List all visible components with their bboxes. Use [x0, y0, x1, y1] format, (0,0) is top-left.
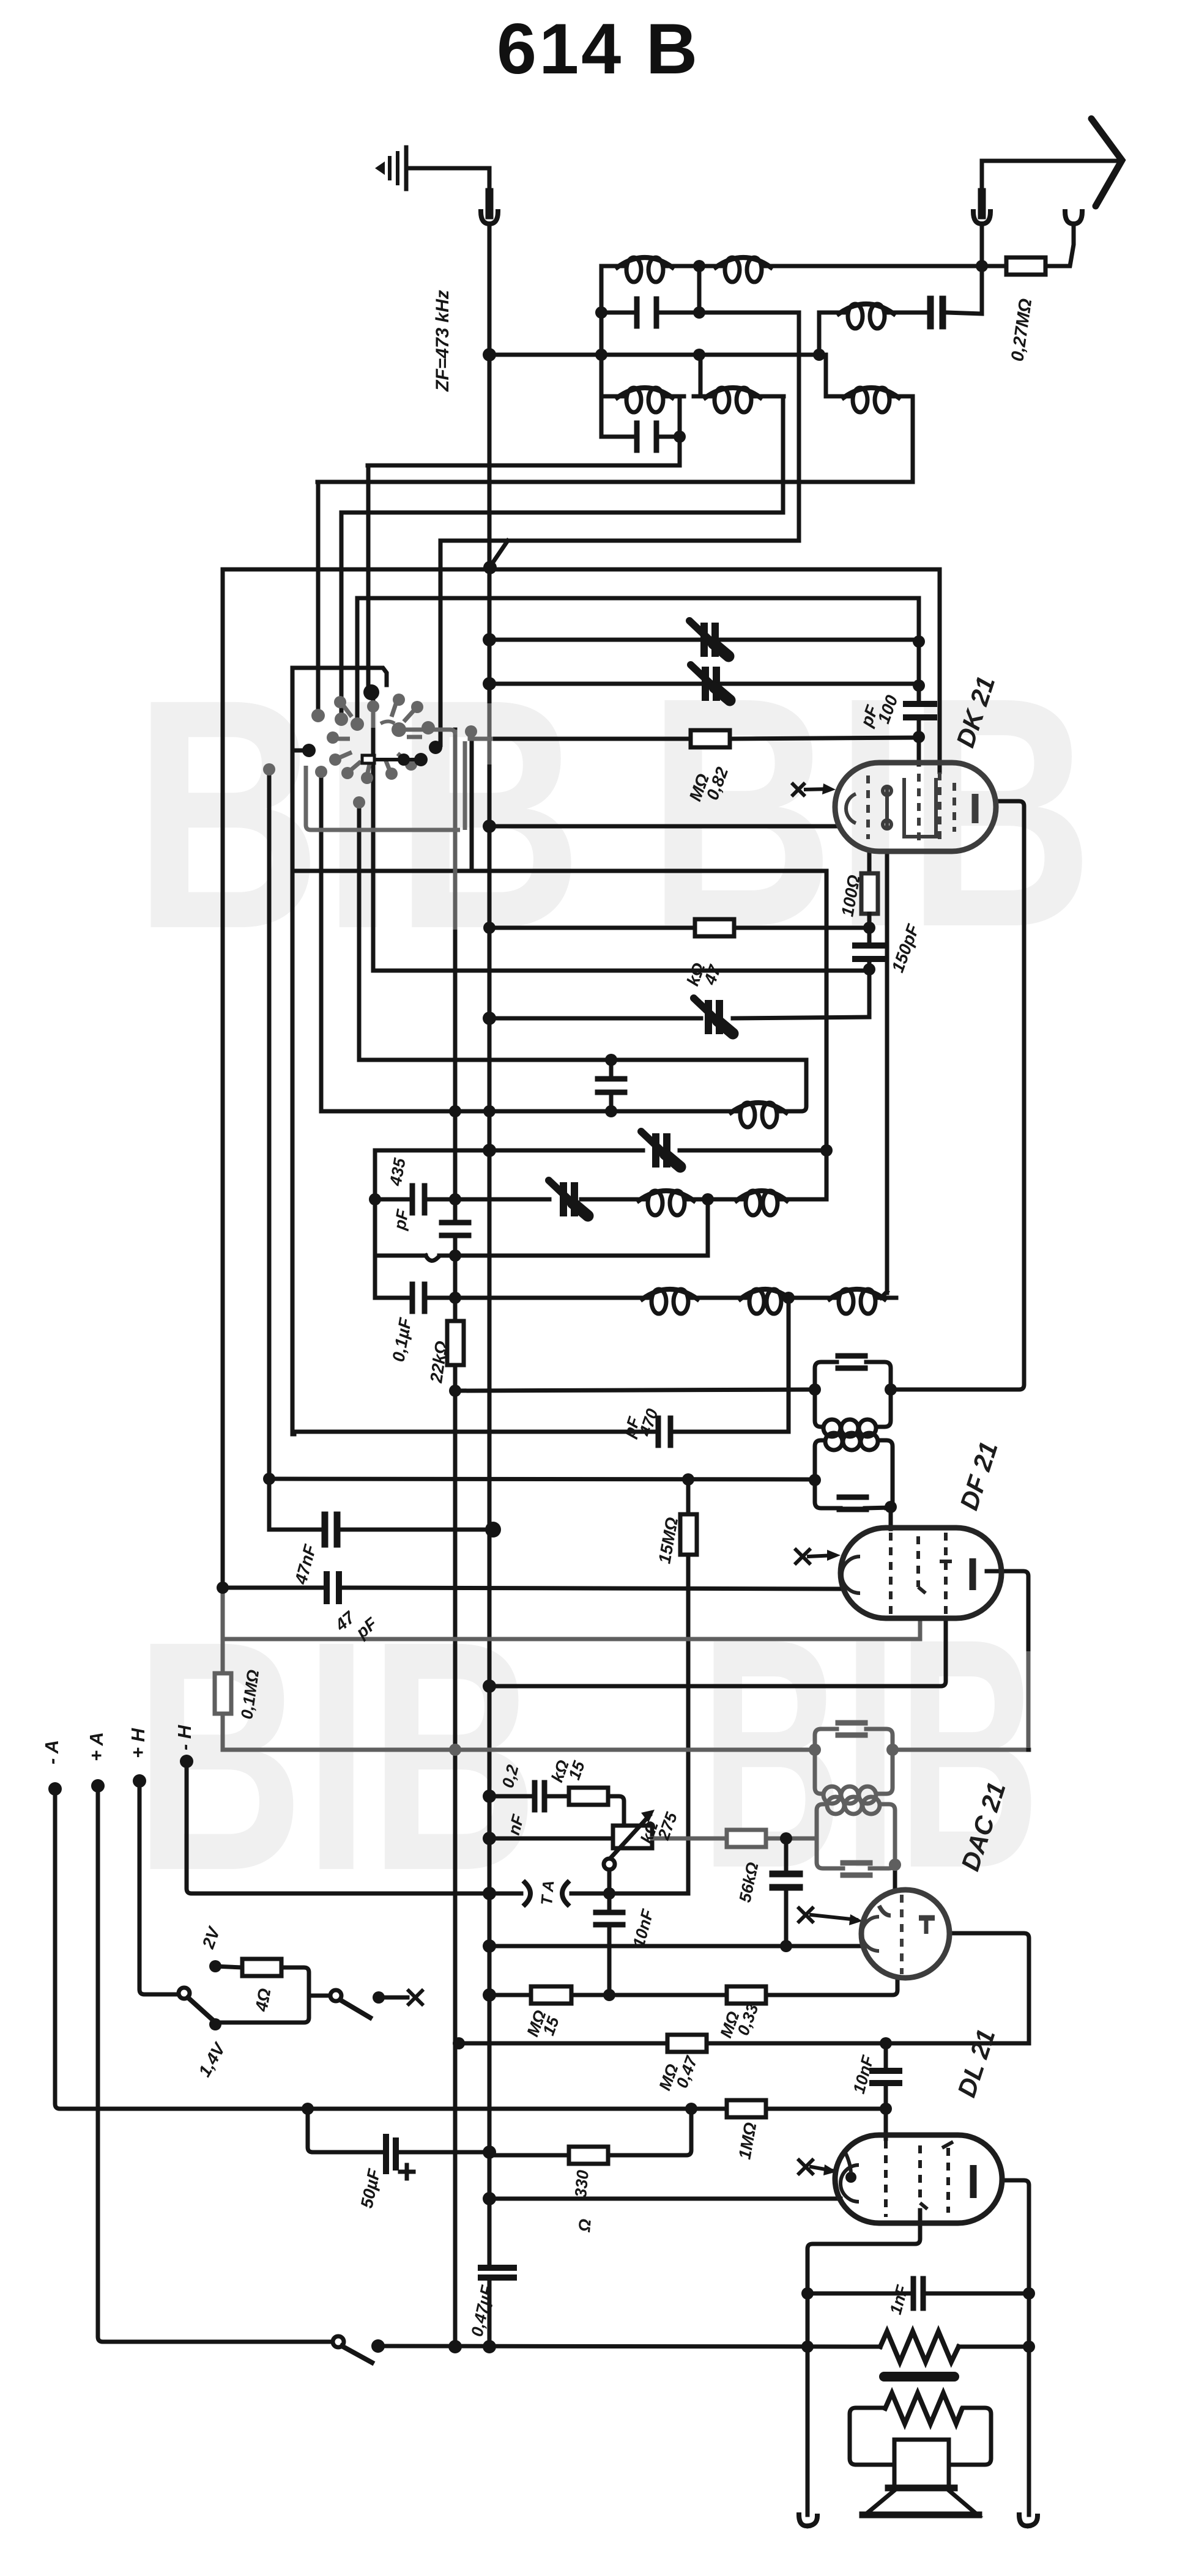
row y=1118 bus to DK21 grid [489, 682, 919, 686]
bus row y=580 [489, 353, 826, 357]
drop x=587 from switch [357, 801, 362, 1060]
band switch black contacts [302, 684, 442, 766]
trimmer arrow [689, 621, 729, 656]
capacitor IF3 plates [838, 1723, 865, 1735]
junction (1448,3341) [880, 2037, 892, 2049]
switch wiper rect [362, 755, 374, 763]
wire IF4 to DAC21 grid [893, 1865, 897, 1891]
coil L6a [652, 1289, 666, 1314]
junction (750,3341) [453, 2037, 465, 2049]
socket cup (aerial 1) [973, 212, 990, 224]
resistor R 1MOhm [727, 2100, 766, 2117]
coil L2 (osc) [848, 304, 863, 328]
junction (503,3448) [302, 2103, 314, 2115]
gray overlay on DF21 anode drop [1027, 1651, 1031, 1748]
junction (1285,3006) [780, 1832, 792, 1845]
battery terminal +H [133, 1774, 146, 1788]
switch contact (558,1176) [335, 712, 348, 726]
junction (744,3837) [448, 2340, 462, 2353]
osc loop right x=1318 [788, 1060, 806, 1111]
wire switch contact to x=478 [292, 749, 306, 753]
long row y=887 [440, 539, 799, 543]
capacitor C 0,47uF plates on bus [481, 2265, 514, 2271]
junction (800,1046) [483, 633, 496, 646]
TA jack hooks [525, 1882, 530, 1904]
switch contact (556,1148) [334, 696, 346, 708]
x mark DF21 filament [796, 1550, 809, 1563]
battery wire -H [187, 1761, 493, 1893]
trimmer C on y=1961 plates [563, 1186, 574, 1213]
coil L4 (osc padding) [740, 1103, 755, 1127]
speaker cone base [863, 2512, 979, 2519]
DF21 internals [842, 1533, 973, 1615]
cap between 56k and 3182 [784, 1838, 789, 1946]
wire x=610 big dot to row 1587 [371, 696, 376, 971]
IF2 box top edge with coil [815, 1440, 893, 1508]
switch contact (640,1265) [385, 768, 398, 780]
coil IF4 (3 loops) [827, 1797, 880, 1814]
second bus x=744 [453, 730, 458, 2347]
junction (800,1517) [483, 922, 496, 934]
row y=2272 left tap to rail [455, 1390, 815, 1391]
ground symbol [375, 147, 406, 189]
IF1 box top edge with cap [815, 1362, 891, 1390]
junction (1143,511) [693, 306, 705, 319]
gray overlay on bus in watermark band [488, 703, 492, 764]
junction (999,1817) [605, 1105, 617, 1117]
battery terminal -H [180, 1755, 193, 1768]
aerial line y=435 [601, 264, 1006, 268]
switch contact (440,1258) [263, 763, 275, 775]
junction (800,1665) [483, 1012, 496, 1025]
vertical x=364 gray section with 0,1M resistor [221, 1588, 225, 1750]
row y=1663 trimmer line [489, 1017, 869, 1018]
trimmer C on y=1880 plates [656, 1137, 667, 1164]
svg-text:- H: - H [174, 1725, 195, 1750]
wire x=1143 between 435 and 511 [697, 266, 702, 313]
osc row y=511 [819, 266, 982, 314]
capacitor plates x=1285 [773, 1871, 800, 1878]
wire 100Ohm bottom to 150pF [867, 914, 872, 944]
DL21 tube envelope [835, 2135, 1002, 2223]
junction (744,2861) [449, 1744, 461, 1756]
plug pin (antenna) [978, 192, 986, 215]
DF21 anode drop x=1681 [987, 1571, 1028, 1750]
DK21 tube envelope [835, 763, 996, 851]
junction (800,1351) [483, 820, 496, 833]
speaker magnet square [894, 2440, 949, 2488]
junction (1459,2861) [886, 1744, 899, 1756]
switch contact (652,1144) [393, 694, 405, 706]
left block vertical x=613 [373, 1150, 377, 1298]
switch contact (587,1312) [353, 796, 365, 809]
junction (800,580) [483, 348, 496, 361]
gray arc detail [381, 722, 395, 724]
coil L5a [648, 1191, 663, 1215]
wire x=1157 down [706, 1199, 710, 1256]
DL21 internals [841, 2141, 973, 2217]
DK21 filament drop x=1450 [885, 851, 889, 1293]
junction (1448,3448) [880, 2103, 892, 2115]
resistor R 0,82MOhm [691, 730, 730, 747]
svg-text:614 B: 614 B [497, 9, 700, 89]
junction (1157,1961) [702, 1193, 714, 1205]
switch contact (584,1184) [351, 717, 364, 731]
resistor R 47kOhm [695, 919, 734, 936]
junction (1463,3049) [889, 1859, 901, 1871]
row y=3595 bus to DL21 [493, 2197, 841, 2201]
filament switch pivot [179, 1988, 190, 1999]
switch gray U-loop below [306, 741, 465, 830]
contact dot 2V [209, 1960, 221, 1972]
row y=1733 [359, 1058, 806, 1062]
row y=2861 gray AVC line [223, 1748, 1029, 1752]
row y=1351 bus to DK21 cathode [489, 824, 836, 829]
long row y=978 [357, 596, 919, 601]
wire 50uF takeoff [308, 2109, 493, 2152]
band bus x=478 [291, 668, 295, 1434]
switch gray stub ring [371, 709, 376, 728]
capacitor C plates in x=744 rail [442, 1220, 469, 1226]
wire x=1289 coil row to 470pF row [787, 1298, 791, 1432]
svg-text:ZF=473 kHz: ZF=473 kHz [433, 290, 453, 392]
junction (1332,2861) [809, 1744, 821, 1756]
x mark chassis [409, 1991, 422, 2004]
IF4 box bottom edge with cap [817, 1838, 895, 1868]
switch drop x=584 [355, 598, 360, 722]
coil L5b [746, 1191, 760, 1215]
main chassis bus vertical lower [488, 2279, 492, 2347]
switch contact (672,1250) [405, 758, 417, 771]
junction (744,1961) [449, 1193, 461, 1205]
capacitor C3 plates row y=714 [637, 423, 656, 450]
switch contact (770,1196) [465, 725, 477, 738]
switch contact (682,1156) [411, 701, 423, 713]
resistor R 56kOhm [727, 1830, 766, 1847]
row y=1046 bus to DK21 grid [489, 638, 919, 642]
resistor R 15MOhm (DAC grid) [531, 1986, 571, 2004]
socket cup (chassis) [481, 212, 498, 224]
switch contact (607,1132) [363, 684, 379, 700]
junction (1339,580) [813, 349, 825, 361]
switch contact (688,1242) [414, 753, 428, 766]
junction (800,3519) [483, 2145, 496, 2159]
band switch assembly [306, 702, 493, 830]
wire socket to junction [980, 224, 984, 266]
battery wire +A [98, 1786, 333, 2342]
capacitor 0,1uF plates [412, 1284, 425, 1311]
band switch contact dots gray [263, 694, 477, 809]
switch contact (520,1170) [311, 709, 325, 722]
junction (1682,3750) [1023, 2287, 1035, 2300]
svg-text:BIB: BIB [135, 1574, 538, 1939]
wire aerial2 down to resistor [1046, 224, 1074, 266]
resistor R 15MOhm vertical [680, 1514, 697, 1555]
row y=1424 [292, 869, 826, 873]
trimmer arrow [549, 1180, 588, 1216]
row y=2680 gray filament line [223, 1619, 920, 1639]
junction (1332,2420) [809, 1474, 821, 1486]
junction (744,2122) [449, 1292, 461, 1304]
junction (744,1817) [449, 1105, 461, 1117]
osc coil feed x=1339 [817, 313, 822, 355]
resistor R 15kOhm [569, 1788, 608, 1805]
feed x=1145 [699, 355, 703, 396]
band coil row y=648 [601, 394, 913, 399]
svg-text:330: 330 [571, 2169, 592, 2199]
speaker square base bar [888, 2485, 954, 2492]
contact dot on/off [373, 1991, 385, 2004]
wiper link wire [374, 758, 421, 761]
svg-text:4Ω: 4Ω [251, 1987, 274, 2013]
DL21 screen line to output [808, 2210, 920, 2515]
junction (613,1961) [369, 1193, 381, 1205]
capacitor C1 plates (aerial trim) [637, 299, 656, 326]
junction (1421,1585) [863, 963, 875, 975]
row y=2596 47pF line [223, 1588, 842, 1589]
row y=1517 bus to 100 Ohm (47k row) [489, 926, 869, 930]
DK21 internals [846, 772, 975, 841]
wire ground to bus [406, 168, 489, 191]
svg-text:- A: - A [41, 1740, 62, 1764]
wire x=771 up to 0,82M row [470, 739, 474, 871]
junction (1320,3837) [801, 2341, 814, 2353]
wire 100Ohm top lead [867, 851, 872, 873]
trimmer arrow [641, 1131, 680, 1167]
capacitor C osc padder plates [930, 299, 943, 326]
row y=1961 435pF line [375, 1197, 826, 1202]
switch drop x=720 [439, 542, 443, 745]
row y=3182 bus to DAC21 [493, 1944, 864, 1949]
capacitor 100pF plates [906, 701, 934, 707]
grid row y=2418 [269, 1479, 815, 1479]
DF21 tube envelope [841, 1528, 1001, 1618]
junction (1130,3448) [685, 2103, 697, 2115]
junction (800,3595) [483, 2192, 496, 2205]
zigzag OT secondary [885, 2393, 962, 2424]
switch contact (544,1206) [327, 731, 339, 744]
junction (806,2501) [485, 1522, 501, 1538]
wire cap row y=511 [601, 311, 799, 315]
junction (800,3837) [483, 2340, 496, 2353]
drop x=525 from switch [319, 771, 324, 1111]
potentiometer body 275k [613, 1826, 652, 1848]
junction (999,1733) [605, 1054, 617, 1066]
wire x=1492 down [911, 396, 915, 482]
transformer core bar [884, 2372, 954, 2382]
switch contact (548,1242) [329, 753, 341, 766]
coil L6b [749, 1289, 764, 1314]
row y=3006 bus to pot [493, 1837, 613, 1841]
wire 4Ohm loop [215, 1967, 309, 2024]
DL21 anode drop [1002, 2180, 1029, 2515]
coil L1a [626, 257, 641, 282]
coil IF2 (3 loops) [825, 1433, 842, 1450]
on/off lever [340, 2000, 370, 2018]
arrow to DAC21 [811, 1915, 856, 1920]
capacitor 47nF plates [325, 1515, 337, 1544]
gray 56k line [652, 1837, 817, 1841]
row y=1817 [321, 1109, 729, 1114]
junction (1605,435) [976, 260, 988, 272]
long row y=931 [223, 568, 940, 572]
switch drop x=440 [267, 768, 272, 1530]
junction (800,3262) [483, 1988, 496, 2002]
arrow to DL21 [811, 2167, 832, 2171]
left loop vertical x=367 [221, 569, 225, 1588]
junction (1502,1121) [913, 679, 925, 692]
potentiometer slider circle [604, 1859, 615, 1870]
junction (800,3006) [483, 1832, 496, 1845]
junction (983,511) [595, 306, 607, 319]
switch contact (700,1190) [421, 721, 435, 735]
junction (800,1118) [483, 677, 496, 690]
coil L3a [626, 388, 641, 412]
DK21 grid wire x=1502 [917, 598, 921, 764]
junction (618,3836) [371, 2339, 385, 2353]
wire row y=761 [368, 464, 680, 468]
trimmer arrow [694, 998, 733, 1034]
IF2 box bottom edge with cap [815, 1481, 891, 1508]
junction (1285,3182) [780, 1940, 792, 1952]
trimmer arrow [691, 665, 730, 700]
wire contact to x mark [379, 1996, 407, 2000]
on/off switch pivot [330, 1990, 341, 2001]
switch contact (652,1193) [392, 722, 406, 737]
resistor R 330Ohm [569, 2147, 608, 2164]
IF1 box bottom edge with coil [815, 1390, 891, 1427]
feed x=1350 [824, 355, 828, 396]
junction (800,3096) [483, 1887, 496, 1900]
junction (1143,580) [693, 349, 705, 361]
DK21 third grid wire x=1536 [938, 569, 942, 772]
trimmer C on y=1663 plates [708, 1004, 719, 1031]
row y=3341 DAC anode load [459, 2041, 1029, 2046]
battery terminal +A [91, 1779, 105, 1793]
vertical x=1351 osc anode [825, 871, 829, 1199]
row y=2122 filament line [375, 1292, 887, 1298]
switch contact (660,1242) [398, 753, 410, 766]
svg-text:Ω: Ω [575, 2218, 595, 2234]
junction (1125,2419) [682, 1473, 694, 1486]
junction (800,1817) [483, 1105, 496, 1117]
row y=3262 grid resistors [493, 1978, 897, 1995]
junction (996,3096) [603, 1887, 615, 1900]
wire cap leads x=999 [609, 1060, 614, 1111]
battery wire -A [55, 1789, 886, 2109]
contact dot 1,4V [209, 2018, 221, 2030]
junction (800,3182) [483, 1939, 496, 1953]
switch contact (610,1155) [367, 700, 379, 712]
coupling cap 10nF leads x=1448 [884, 2043, 888, 2139]
svg-text:+ A: + A [86, 1732, 107, 1761]
mains switch lever [342, 2346, 372, 2363]
arrow to DF21 [809, 1555, 834, 1556]
terminal hook left [799, 2515, 809, 2526]
coil L1b [725, 257, 740, 282]
IF4 box top edge with coil [817, 1804, 895, 1865]
capacitor IF2 plates [839, 1495, 866, 1500]
capacitor 47pF plates [327, 1574, 339, 1601]
junction (983,580) [595, 349, 607, 361]
resistor R 0,47MOhm [667, 2035, 707, 2052]
wire x=1280 coil L3b to row [781, 396, 785, 513]
terminal hook right [1019, 2515, 1029, 2526]
resistor R 0,27MOhm [1006, 257, 1045, 275]
IF3 box top edge with cap (DAC21) [815, 1729, 893, 1750]
capacitor 0,2nF plates [535, 1783, 544, 1810]
junction (1332,2272) [809, 1383, 821, 1396]
row y=1587 [373, 969, 869, 973]
junction (1682,3837) [1023, 2341, 1035, 2353]
wire 15M leads x=1125 [686, 1479, 691, 1893]
junction (1111,714) [674, 431, 686, 443]
left coil rail x=983 [600, 266, 604, 437]
long row y=788 [317, 480, 913, 484]
capacitor 10nF plates [596, 1910, 623, 1915]
wire antenna to plug [982, 161, 1118, 191]
coil IF3 (3 loops) [823, 1786, 876, 1804]
capacitor C plates x=999 [598, 1076, 625, 1082]
capacitor 10nF plates (coupling) [872, 2068, 899, 2074]
DAC21 anode lead [949, 1933, 1029, 2043]
junction (364,2596) [217, 1582, 229, 1594]
battery wire +H [139, 1781, 179, 1994]
switch contact (600,1272) [361, 772, 373, 784]
switch drop x=602 [366, 465, 371, 688]
junction (800,1881) [483, 1144, 496, 1157]
DAC21 tube envelope [861, 1890, 949, 1978]
x mark DL21 filament [799, 2160, 812, 2174]
svg-text:+ H: + H [127, 1728, 149, 1758]
filament switch lever [188, 1997, 213, 2020]
coil IF1 (3 loops) [823, 1419, 841, 1437]
row y=2053 with hop [375, 1256, 708, 1260]
junction (1456,2464) [885, 1501, 897, 1513]
row y=3750 1nF [808, 2292, 1029, 2296]
capacitor 1nF plates [913, 2279, 923, 2308]
wire slider down [607, 1870, 612, 1893]
junction (1143,435) [693, 260, 705, 272]
junction (1502,1049) [913, 635, 925, 648]
row y=2757 bus to DF21 [489, 1619, 946, 1686]
capacitor 10nF leads [607, 1893, 612, 1995]
arrow to DK21 [804, 789, 831, 790]
junction (801,928) [483, 561, 497, 574]
row y=2937 bus-0,2nF-15k [493, 1796, 624, 1826]
row y=1880 osc grid [375, 1149, 826, 1153]
wire x=1306 down to 880 [489, 313, 799, 568]
resistor R 22kOhm [447, 1321, 464, 1365]
junction (1456,2272) [885, 1383, 897, 1396]
speaker cone [865, 2490, 978, 2515]
row y=2501 47nF to bus [269, 1528, 493, 1532]
main chassis bus vertical x=800 upper [488, 224, 492, 2266]
battery terminal -A [48, 1782, 62, 1796]
junction (1289,2122) [782, 1292, 795, 1304]
junction (800,2757) [483, 1679, 496, 1693]
DAC21 internals [862, 1895, 935, 1974]
capacitor IF4 plates [843, 1863, 870, 1875]
resistor R 4Ohm [242, 1959, 281, 1976]
junction (1421,1517) [863, 922, 875, 934]
junction (800,2937) [483, 1790, 496, 1803]
plug pin (ground lead) [486, 192, 494, 215]
trimmer C on y=1118 plates [705, 670, 716, 697]
resistor R 100Ohm [861, 873, 878, 914]
junction (1502,1205) [913, 731, 925, 743]
junction (996,3262) [603, 1989, 615, 2001]
